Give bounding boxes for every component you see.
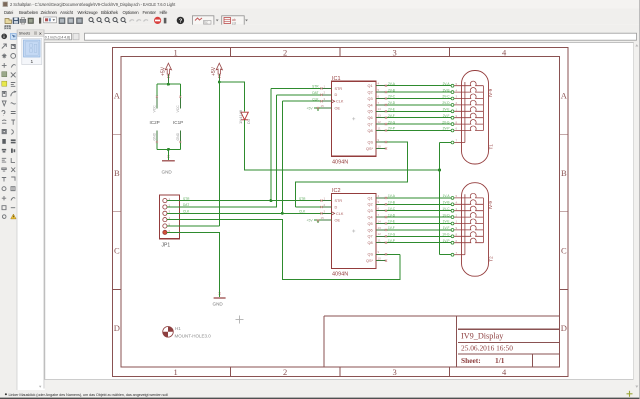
wire IC2 Q1..Q8 to tube T2 [376,198,451,243]
canvas [45,43,634,380]
supply pin cross marks [167,76,220,78]
svg-text:1: 1 [31,59,34,65]
svg-text:0.1 inch (3.4 4.8): 0.1 inch (3.4 4.8) [45,35,70,39]
svg-text:2V-F: 2V-F [443,114,450,118]
wire IC1 Q1..Q8 to tube T1 [376,86,451,131]
svg-text:2V-A: 2V-A [443,82,451,86]
svg-text:✕: ✕ [39,32,42,36]
wire DATA net [167,95,322,207]
svg-text:2V-E: 2V-E [443,108,450,112]
svg-text:D: D [561,323,567,333]
svg-text:1V-P: 1V-P [443,239,450,243]
title bar [0,0,640,9]
svg-text:+5V: +5V [160,66,166,76]
svg-text:A: A [561,91,568,101]
svg-text:2V-B: 2V-B [388,88,395,92]
bordered button 1 [192,16,214,25]
svg-text:1V-B: 1V-B [388,201,395,205]
svg-text:CLK: CLK [183,210,190,214]
svg-text:3: 3 [393,367,397,377]
svg-text:B: B [114,168,120,178]
svg-text:JP1: JP1 [162,243,171,249]
h scrollbar [45,380,634,390]
svg-text:D: D [114,323,120,333]
svg-text:B: B [561,168,567,178]
svg-text:IV-9: IV-9 [488,201,493,210]
svg-text:1V-F: 1V-F [443,226,450,230]
magnifier icons x5 [89,18,126,23]
drawing frame [113,48,569,377]
svg-text:1V-P: 1V-P [388,239,395,243]
junction dots [167,81,441,215]
svg-text:DAT: DAT [183,203,189,207]
IC IC1 4094N [307,81,387,156]
svg-text:1V-A: 1V-A [443,194,451,198]
svg-text:2V-G: 2V-G [442,120,450,124]
svg-text:1V-C: 1V-C [388,207,396,211]
wire IC1 OE stub [314,108,322,111]
svg-text:1V-E: 1V-E [443,220,450,224]
svg-text:Bibliothek: Bibliothek [101,10,119,15]
disabled undo/redo [130,20,149,22]
svg-text:2V-D: 2V-D [388,101,396,105]
svg-text:1: 1 [174,48,178,58]
diode D1 [241,112,248,120]
svg-text:IV-9: IV-9 [488,88,493,97]
svg-text:i: i [3,34,4,39]
svg-text:2: 2 [283,48,287,58]
svg-text:Optionen: Optionen [123,10,140,15]
svg-text:1V-D: 1V-D [388,213,396,217]
svg-text:GND: GND [162,170,173,175]
svg-text:1V-D: 1V-D [442,213,450,217]
svg-text:DAT: DAT [312,91,318,95]
stop icon [154,17,161,24]
svg-text:1V-F: 1V-F [388,226,395,230]
IC2P power gate [156,96,158,143]
svg-text:2V-A: 2V-A [388,82,396,86]
wire STR net [167,88,322,200]
svg-text:2V-G: 2V-G [388,120,396,124]
frame labels [114,48,568,378]
svg-text:1V-B: 1V-B [443,201,450,205]
bordered button 2 [222,16,245,25]
svg-text:GND: GND [176,132,180,140]
wire QS1 cascade to IC2 D [295,142,407,207]
menu bar [0,9,640,17]
svg-text:2: 2 [283,367,287,377]
save [13,18,19,24]
svg-text:Bearbeiten: Bearbeiten [19,10,39,15]
toolbar row 2 [0,25,640,32]
wire power-gate GND join [157,143,180,160]
svg-text:1/1: 1/1 [495,356,505,365]
open [5,19,12,24]
print [20,19,26,22]
svg-text:A: A [114,91,121,101]
svg-text:STR: STR [312,85,319,89]
svg-text:C: C [114,246,120,256]
svg-text:+5V: +5V [211,66,217,76]
svg-text:CLK: CLK [312,97,319,101]
small dark icon [164,18,167,24]
wire CLK net [167,101,322,213]
wire +5V vertical to JP1 pin5 [167,82,219,226]
svg-text:C: C [561,246,567,256]
left tool palette [0,30,17,391]
tube T2 IV-9 [451,183,488,277]
sheets panel [18,30,45,389]
wire QS2 return to JP1 pin4 [167,220,400,280]
status bar [0,390,640,398]
svg-text:H1: H1 [175,326,181,331]
wire GND from JP1 pin6 [167,232,220,297]
dropdown combo [44,17,57,23]
grid icon [5,26,11,31]
svg-text:2V-P: 2V-P [388,127,395,131]
toolbar row 1 [0,16,640,25]
svg-text:VCC: VCC [153,105,157,113]
svg-text:T1: T1 [489,144,494,150]
svg-text:Zeichnen: Zeichnen [41,10,58,15]
svg-text:1V-G: 1V-G [388,233,396,237]
wire IC2 OE stub [314,220,322,223]
svg-text:IC2: IC2 [332,188,341,194]
svg-text:2V-P: 2V-P [443,127,450,131]
svg-text:Datei: Datei [4,10,13,15]
svg-text:1V-C: 1V-C [442,207,450,211]
svg-text:STR: STR [299,197,306,201]
svg-text:2V-D: 2V-D [442,101,450,105]
svg-text:2V-C: 2V-C [442,95,450,99]
GND symbol 1 [162,160,175,162]
svg-text:1V-A: 1V-A [388,194,396,198]
svg-text:bc: bc [204,21,208,25]
svg-text:MOUNT-HOLE3.0: MOUNT-HOLE3.0 [175,334,212,339]
GND symbol 2 [214,297,226,299]
svg-text:4094N: 4094N [332,160,348,166]
svg-text:2V-F: 2V-F [388,114,395,118]
+5V supply symbol 1 [165,63,171,74]
mouse cursor crosshair [627,391,633,397]
svg-text:Ansicht: Ansicht [60,10,74,15]
help icon [177,17,184,24]
mount hole H1 [163,326,212,339]
svg-text:Fenster: Fenster [143,10,157,15]
title block [324,316,560,367]
origin cross [236,316,244,324]
svg-text:4094N: 4094N [332,272,348,278]
svg-text:IC2P: IC2P [150,120,160,125]
svg-text:Hilfe: Hilfe [160,10,168,15]
svg-text:Sheets: Sheets [19,32,31,36]
svg-text:T2: T2 [489,256,494,262]
svg-text:Werkzeuge: Werkzeuge [78,10,99,15]
v scrollbar [634,43,640,391]
supply pin stubs [168,75,219,85]
sheet thumbnail [22,39,42,65]
svg-text:IV9_Display: IV9_Display [461,331,504,340]
wire +5V branch to diode [219,82,244,112]
svg-text:GND: GND [153,132,157,140]
IC IC2 4094N [307,194,387,269]
wire +5V rail 1 [157,84,180,96]
svg-text:2 Schaltplan - C:\Users\Georg\: 2 Schaltplan - C:\Users\Georg\Documents\… [10,2,176,7]
command row [44,32,640,43]
connector JP1 [159,195,179,239]
svg-text:Linker Mausklick (oder Angabe: Linker Mausklick (oder Angabe des Namens… [9,392,169,397]
svg-text:3: 3 [393,48,397,58]
svg-text:Sheet:: Sheet: [461,356,481,365]
wire diode cathode to tube commons [245,120,451,255]
svg-text:1V-G: 1V-G [442,233,450,237]
svg-text:1V-E: 1V-E [388,220,395,224]
IC1P power gate [179,96,181,143]
svg-text:D1: D1 [246,118,251,124]
svg-text:IC1: IC1 [332,76,341,82]
svg-text:CLK: CLK [299,210,306,214]
svg-text:2V-B: 2V-B [443,88,450,92]
tube T1 IV-9 [451,71,488,165]
svg-text:1: 1 [174,367,178,377]
folder dark [28,18,34,24]
svg-text:IC1P: IC1P [173,120,183,125]
svg-text:2V-E: 2V-E [388,108,395,112]
svg-text:STR: STR [183,197,190,201]
+5V supply symbol 2 [216,63,222,74]
svg-text:2V-C: 2V-C [388,95,396,99]
svg-text:25.06.2016 16:50: 25.06.2016 16:50 [461,344,513,353]
svg-text:VCC: VCC [176,105,180,113]
svg-text:1N4148: 1N4148 [238,109,243,124]
narrow script icon [39,18,41,24]
svg-text:GND: GND [213,302,224,307]
three dark icons [59,18,65,24]
pin end marks [156,96,158,98]
